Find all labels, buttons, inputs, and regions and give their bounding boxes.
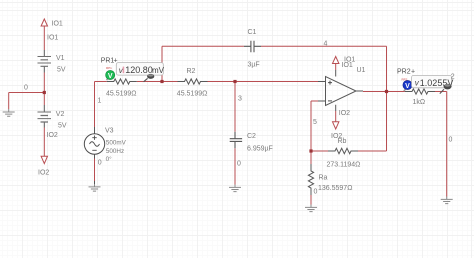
svg-text:IO2: IO2 xyxy=(47,132,58,139)
svg-text:1kΩ: 1kΩ xyxy=(413,99,426,106)
svg-text:4: 4 xyxy=(324,41,328,48)
svg-text:2: 2 xyxy=(451,74,455,81)
svg-text:273.1194Ω: 273.1194Ω xyxy=(327,162,361,169)
svg-text:Ra: Ra xyxy=(319,175,328,182)
svg-text:IO2: IO2 xyxy=(339,110,350,117)
svg-text:+: + xyxy=(411,69,415,76)
svg-text:0: 0 xyxy=(237,161,241,168)
svg-text:45.5199Ω: 45.5199Ω xyxy=(106,91,137,98)
svg-text:0: 0 xyxy=(314,188,318,195)
svg-text:IO1: IO1 xyxy=(47,35,58,42)
svg-text:45.5199Ω: 45.5199Ω xyxy=(177,91,208,98)
svg-text:136.5597Ω: 136.5597Ω xyxy=(318,185,352,192)
svg-text:6.959µF: 6.959µF xyxy=(247,146,273,153)
svg-text:0: 0 xyxy=(98,160,102,167)
svg-text:IO1: IO1 xyxy=(342,62,353,69)
svg-text:U1: U1 xyxy=(357,67,366,74)
svg-text:0: 0 xyxy=(449,137,453,144)
svg-text:PR2: PR2 xyxy=(397,69,411,76)
svg-text:3µF: 3µF xyxy=(248,62,260,69)
svg-text:0: 0 xyxy=(24,85,28,92)
svg-text:0°: 0° xyxy=(106,155,113,163)
svg-text:RP1: RP1 xyxy=(106,66,112,70)
svg-text:500Hz: 500Hz xyxy=(106,148,124,155)
svg-text:5V: 5V xyxy=(57,67,66,74)
svg-text:R2: R2 xyxy=(187,68,196,75)
svg-text:RP2: RP2 xyxy=(402,78,408,82)
svg-text:V: V xyxy=(405,83,410,90)
svg-text:120.80: 120.80 xyxy=(125,65,153,75)
svg-text:V1: V1 xyxy=(56,55,65,62)
svg-text:+: + xyxy=(114,58,118,65)
svg-text:1: 1 xyxy=(98,98,102,105)
svg-text:3: 3 xyxy=(238,96,242,103)
svg-text:PR1: PR1 xyxy=(101,58,115,65)
svg-text:V3: V3 xyxy=(105,128,114,135)
svg-text:5V: 5V xyxy=(58,123,67,130)
svg-text:V: V xyxy=(108,73,113,80)
svg-text:V2: V2 xyxy=(56,111,65,118)
svg-text:IO1: IO1 xyxy=(52,21,63,28)
svg-text:mV: mV xyxy=(152,66,165,75)
svg-text:C1: C1 xyxy=(248,29,257,36)
svg-text:500mV: 500mV xyxy=(106,140,127,147)
svg-text:C2: C2 xyxy=(247,133,256,140)
svg-text:IO2: IO2 xyxy=(38,169,49,176)
svg-text:5: 5 xyxy=(313,119,317,126)
svg-text:Rb: Rb xyxy=(338,138,347,145)
